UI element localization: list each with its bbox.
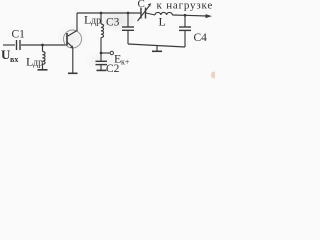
svg-text:др: др [91, 16, 101, 27]
inductor Ldr2 (collector choke) [100, 13, 102, 24]
capacitor C2 [100, 53, 102, 61]
capacitor C1 [16, 40, 18, 50]
svg-text:C1: C1 [12, 29, 26, 41]
transistor collector lead [67, 13, 77, 37]
capacitor C3 [127, 13, 129, 27]
scan speck [211, 72, 216, 79]
svg-text:C4: C4 [194, 32, 208, 44]
ground (C2) [97, 69, 107, 71]
terminal Ek+ [110, 51, 113, 54]
wire: top rail [77, 12, 141, 14]
node C (supply node) [100, 52, 103, 55]
svg-text:к+: к+ [121, 58, 130, 67]
svg-text:L: L [159, 15, 166, 29]
svg-text:др: др [33, 58, 43, 69]
svg-text:C2: C2 [106, 63, 120, 75]
wire: input lead [3, 44, 15, 46]
svg-text:C: C [138, 0, 145, 10]
wire: L to output node [172, 14, 185, 16]
wire: supply stub [101, 52, 110, 54]
wire: C1 to base [21, 44, 67, 46]
transistor VT (circle) [64, 30, 82, 48]
svg-text:к нагрузке: к нагрузке [157, 0, 214, 12]
wire: bottom return line [128, 44, 185, 47]
node D (C3 junction on rail) [127, 12, 130, 15]
transistor emitter lead [67, 42, 73, 48]
wire: C to L [146, 13, 155, 15]
wire: output arrow to load [185, 14, 207, 17]
inductor L [155, 12, 172, 15]
node B (collector choke junction) [100, 12, 103, 15]
node E (output node) [184, 14, 187, 17]
transistor base bar [66, 33, 68, 46]
svg-text:вх: вх [10, 55, 18, 64]
node A (base choke junction) [41, 44, 44, 47]
ground (middle) [156, 46, 158, 51]
emitter arrowhead [70, 45, 73, 48]
svg-text:C3: C3 [106, 17, 120, 29]
variable capacitor C [140, 8, 142, 19]
capacitor C4 [184, 15, 186, 26]
inductor Ldr1 (base choke) [42, 45, 44, 52]
ground (emitter) [68, 72, 78, 74]
ground (base choke) [38, 69, 48, 71]
